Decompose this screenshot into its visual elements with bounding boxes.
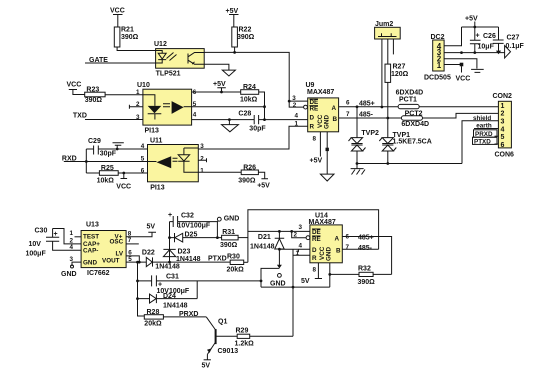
svg-text:390Ω: 390Ω bbox=[237, 34, 255, 41]
svg-text:+5V: +5V bbox=[213, 81, 226, 88]
wire Jum2 to R27 bbox=[387, 39, 389, 64]
net 485+ row A bbox=[339, 100, 499, 108]
svg-text:C26: C26 bbox=[483, 33, 496, 40]
power 5V (U13 V+) bbox=[126, 224, 156, 237]
svg-text:1N4148: 1N4148 bbox=[250, 243, 275, 250]
phototransistor inside U12 bbox=[188, 53, 204, 65]
resistor R21 bbox=[114, 27, 138, 48]
wire GATE to U12 cathode bbox=[85, 62, 156, 64]
op-amp U11 PI13 optocoupler bbox=[141, 138, 205, 192]
svg-text:C32: C32 bbox=[181, 212, 194, 219]
svg-text:3: 3 bbox=[501, 119, 505, 126]
pin Jum2 pin3 stub bbox=[392, 39, 394, 54]
resistor R23 bbox=[85, 87, 105, 105]
capacitor C27 bbox=[493, 27, 525, 53]
svg-text:A: A bbox=[335, 236, 340, 243]
svg-text:1.2kΩ: 1.2kΩ bbox=[235, 340, 255, 347]
net PTXD (CON2 pin6) bbox=[473, 137, 499, 145]
junction TVP2 on 485+ bbox=[356, 105, 359, 108]
wire VOUT bus down left bbox=[138, 262, 145, 316]
svg-text:C9013: C9013 bbox=[218, 348, 239, 355]
svg-text:390Ω: 390Ω bbox=[121, 34, 139, 41]
svg-text:C29: C29 bbox=[88, 138, 101, 145]
svg-text:U13: U13 bbox=[86, 222, 99, 229]
svg-text:RE: RE bbox=[310, 106, 319, 113]
svg-text:R27: R27 bbox=[393, 64, 406, 71]
pin U13 TEST pin1 stub bbox=[70, 230, 82, 237]
net 485+ (U14 A) bbox=[342, 234, 391, 275]
svg-text:C30: C30 bbox=[35, 228, 48, 235]
svg-text:DE: DE bbox=[312, 229, 321, 236]
wire U10 pin5 row bbox=[192, 106, 265, 108]
node TXD bbox=[73, 112, 143, 119]
svg-text:+: + bbox=[54, 231, 58, 238]
svg-text:2: 2 bbox=[501, 111, 505, 118]
capacitor C29 bbox=[86, 138, 147, 158]
svg-text:CON2: CON2 bbox=[493, 93, 513, 100]
svg-text:RE: RE bbox=[312, 236, 321, 243]
svg-text:3: 3 bbox=[200, 143, 204, 150]
wire DC2 pin3 to cap rail bbox=[444, 52, 461, 54]
svg-text:485-: 485- bbox=[359, 112, 374, 119]
svg-text:10μF: 10μF bbox=[478, 44, 495, 51]
svg-text:GND: GND bbox=[83, 260, 97, 267]
pin U14 VCC pin8 to 5V bbox=[301, 263, 322, 285]
svg-text:TVP2: TVP2 bbox=[361, 130, 379, 137]
wire TXD to U10 pin3 bbox=[85, 119, 143, 121]
resistor R27 bbox=[385, 64, 409, 83]
power VCC (below R25) bbox=[116, 172, 131, 191]
pin U13 OSC pin7 stub bbox=[126, 237, 139, 244]
svg-text:GND: GND bbox=[224, 215, 240, 222]
svg-text:20kΩ: 20kΩ bbox=[227, 266, 245, 273]
wire R27 to 485- row bbox=[387, 82, 389, 118]
LED inside U10 bbox=[143, 95, 155, 106]
wire D21 bottom link bbox=[261, 268, 279, 287]
wire U10 pin6 row bbox=[192, 91, 241, 93]
wire DC2 pin4 up to +5V rail bbox=[444, 27, 461, 46]
svg-text:+5V: +5V bbox=[257, 183, 270, 190]
wire R31 node to 485- route bbox=[248, 210, 379, 263]
svg-text:CAP-: CAP- bbox=[83, 247, 98, 254]
svg-text:7: 7 bbox=[346, 244, 350, 251]
net PTXD row / resistor R30 bbox=[170, 253, 248, 273]
svg-text:VCC: VCC bbox=[116, 184, 131, 191]
svg-text:Q1: Q1 bbox=[218, 318, 227, 325]
svg-text:6DXD4D: 6DXD4D bbox=[396, 89, 424, 96]
receiver triangle inside U11 bbox=[157, 156, 172, 168]
power +5V (U10 pin6 pull-up) bbox=[213, 81, 226, 92]
pin U14 RE pin2 with bubble bbox=[292, 231, 310, 239]
pin U9 RE pin2 with bubble bbox=[289, 101, 307, 109]
ground (U11 pin4) bbox=[113, 143, 124, 151]
transistor Q1 C9013 bbox=[206, 317, 238, 360]
svg-text:485-: 485- bbox=[358, 245, 373, 252]
svg-text:D: D bbox=[312, 247, 317, 254]
svg-text:1: 1 bbox=[200, 167, 204, 174]
connector DC2 DCD505 bbox=[424, 34, 451, 82]
svg-text:10V: 10V bbox=[29, 241, 42, 248]
svg-text:C31: C31 bbox=[166, 273, 179, 280]
svg-text:+5V: +5V bbox=[226, 8, 239, 15]
svg-text:5V: 5V bbox=[301, 278, 310, 285]
svg-text:30pF: 30pF bbox=[100, 151, 117, 158]
svg-text:4: 4 bbox=[501, 126, 505, 133]
svg-text:+: + bbox=[168, 212, 172, 219]
svg-text:10kΩ: 10kΩ bbox=[97, 178, 115, 185]
svg-text:PI13: PI13 bbox=[145, 128, 160, 135]
svg-text:R22: R22 bbox=[239, 27, 252, 34]
net shield (CON2 pin3) bbox=[462, 115, 498, 164]
svg-text:U11: U11 bbox=[150, 138, 163, 145]
svg-text:20kΩ: 20kΩ bbox=[144, 320, 162, 327]
svg-text:5: 5 bbox=[501, 134, 505, 141]
svg-text:CON6: CON6 bbox=[495, 152, 515, 159]
svg-text:4: 4 bbox=[299, 243, 303, 250]
svg-text:390Ω: 390Ω bbox=[85, 97, 103, 104]
node off-page arrow bbox=[505, 46, 511, 58]
svg-text:10kΩ: 10kΩ bbox=[240, 97, 258, 104]
diode D21 1N4148 bbox=[250, 230, 284, 268]
wire U10 pin4 row / C28 left bbox=[192, 119, 255, 121]
resistor R25 bbox=[86, 165, 147, 185]
wire DI/RO net vertical bbox=[292, 249, 294, 336]
svg-text:6DXD4D: 6DXD4D bbox=[401, 121, 429, 128]
fuse PCT2 bbox=[401, 111, 429, 129]
op-amp U13 ICL7662 bbox=[81, 222, 126, 277]
resistor R22 bbox=[232, 27, 255, 48]
fuse PCT1 bbox=[396, 89, 424, 109]
svg-text:6: 6 bbox=[346, 234, 350, 241]
power +5V (top right) bbox=[465, 16, 478, 28]
svg-text:B: B bbox=[336, 248, 341, 255]
svg-text:+: + bbox=[476, 33, 480, 40]
svg-text:485+: 485+ bbox=[358, 234, 374, 241]
svg-text:4: 4 bbox=[193, 112, 197, 119]
node GND port (D21) bbox=[270, 274, 286, 288]
wire DC2 pin2 to ground bbox=[444, 59, 477, 69]
pin U13 VOUT pin5 bbox=[126, 256, 146, 264]
power +5V (below R26) bbox=[257, 172, 270, 189]
svg-text:390Ω: 390Ω bbox=[220, 242, 238, 249]
pin U10 pin2 stub bbox=[129, 105, 143, 109]
power 5V (Q1 emitter) bbox=[202, 360, 211, 369]
op-amp U12 TLP521 optocoupler bbox=[154, 41, 204, 78]
svg-text:1.5KE7.5CA: 1.5KE7.5CA bbox=[393, 139, 432, 146]
power +5V (above R22) bbox=[226, 8, 239, 27]
svg-text:120Ω: 120Ω bbox=[391, 71, 409, 78]
svg-text:1: 1 bbox=[501, 103, 505, 110]
svg-text:PTXD: PTXD bbox=[474, 138, 491, 145]
resistor R26 bbox=[198, 164, 258, 184]
wire R21 to U12 anode bbox=[117, 47, 156, 51]
svg-text:6: 6 bbox=[346, 100, 350, 107]
svg-text:OSC: OSC bbox=[110, 238, 124, 245]
wire Jum2 pin1 to 485+ row bbox=[381, 39, 383, 107]
pin U9 R pin1 to U11 pin3 bbox=[198, 120, 307, 149]
svg-text:R24: R24 bbox=[243, 84, 256, 91]
svg-text:A: A bbox=[332, 105, 337, 112]
svg-text:R: R bbox=[312, 255, 317, 262]
net earth (CON2 pin4) bbox=[474, 122, 498, 129]
svg-text:5V: 5V bbox=[147, 224, 156, 231]
resistor R31 bbox=[220, 229, 248, 249]
connector CON2 bbox=[493, 93, 515, 159]
wire node X vertical bbox=[169, 222, 171, 263]
SECTION-BOTTOM bbox=[26, 210, 392, 369]
op-amp U10 PI13 optocoupler bbox=[136, 82, 197, 135]
LED inside U12 bbox=[156, 51, 163, 54]
svg-text:MAX487: MAX487 bbox=[307, 89, 334, 96]
svg-text:R23: R23 bbox=[86, 87, 99, 94]
svg-text:1: 1 bbox=[437, 61, 442, 70]
svg-text:R32: R32 bbox=[358, 265, 371, 272]
pin U14 DE pin3 bbox=[290, 224, 302, 233]
wire RXD branch vertical bbox=[85, 149, 87, 173]
wire R23 to U10 pin1 bbox=[105, 94, 143, 96]
resistor R24 bbox=[240, 84, 259, 104]
svg-text:D: D bbox=[310, 115, 315, 122]
svg-text:7: 7 bbox=[128, 237, 132, 244]
svg-text:R25: R25 bbox=[101, 165, 114, 172]
svg-text:PRXD: PRXD bbox=[179, 311, 198, 318]
diode D22 1N4148 bbox=[142, 250, 180, 271]
svg-text:TXD: TXD bbox=[73, 112, 87, 119]
svg-text:GND: GND bbox=[326, 247, 333, 261]
svg-text:8: 8 bbox=[313, 136, 317, 143]
svg-text:6: 6 bbox=[501, 142, 505, 149]
wire R22 to collector row and down to U9 DE bbox=[204, 47, 289, 101]
power VCC (top left) bbox=[110, 8, 125, 28]
wire C28 to U9 pin4 bbox=[259, 119, 308, 121]
svg-text:D22: D22 bbox=[142, 250, 155, 257]
svg-text:U12: U12 bbox=[154, 41, 167, 48]
node GND port (C32) bbox=[216, 215, 239, 239]
pin U9 GND pin5 to ground bbox=[320, 132, 334, 181]
svg-text:R21: R21 bbox=[121, 27, 134, 34]
wire pin4 row to D21 bbox=[279, 249, 310, 252]
svg-text:1: 1 bbox=[70, 230, 74, 237]
SECTION-TOP bbox=[85, 8, 525, 120]
capacitor C26 bbox=[470, 27, 496, 53]
op-amp U14 MAX487 bbox=[309, 212, 343, 262]
svg-text:4: 4 bbox=[295, 112, 299, 119]
svg-text:2: 2 bbox=[200, 155, 204, 162]
svg-text:U10: U10 bbox=[137, 82, 150, 89]
ground (U10 pin4) bbox=[228, 120, 230, 125]
transient suppressor TVP2 bbox=[349, 107, 380, 164]
svg-text:390Ω: 390Ω bbox=[238, 178, 256, 185]
svg-text:7: 7 bbox=[346, 111, 350, 118]
capacitor C28 bbox=[238, 110, 266, 132]
svg-text:5: 5 bbox=[141, 155, 145, 162]
svg-text:6: 6 bbox=[141, 167, 145, 174]
svg-text:0.1μF: 0.1μF bbox=[506, 43, 525, 50]
resistor R28 bbox=[144, 309, 206, 328]
svg-text:U9: U9 bbox=[306, 82, 315, 89]
svg-text:390Ω: 390Ω bbox=[358, 279, 376, 286]
capacitor C30 bbox=[26, 228, 82, 258]
svg-text:R26: R26 bbox=[243, 164, 256, 171]
svg-text:2: 2 bbox=[293, 102, 297, 109]
wire earth bus bbox=[357, 163, 462, 165]
svg-text:8: 8 bbox=[313, 267, 317, 274]
pin U14 GND pin5 bbox=[329, 263, 331, 287]
svg-text:4: 4 bbox=[141, 143, 145, 150]
capacitor C31 bbox=[136, 273, 262, 295]
svg-text:3: 3 bbox=[299, 224, 303, 231]
wire DE row U14 bbox=[248, 230, 310, 232]
svg-text:GND: GND bbox=[324, 115, 331, 129]
svg-text:R29: R29 bbox=[236, 328, 249, 335]
svg-text:GND: GND bbox=[270, 280, 286, 287]
svg-text:VOUT: VOUT bbox=[102, 257, 120, 264]
svg-text:5V: 5V bbox=[202, 363, 211, 369]
net PRXD (CON2 pin5) bbox=[474, 130, 499, 138]
svg-text:IC7662: IC7662 bbox=[87, 270, 110, 277]
net 485- (U14 B) bbox=[342, 244, 378, 252]
resistor R32 bbox=[330, 265, 392, 286]
svg-text:485+: 485+ bbox=[359, 100, 375, 107]
pin U9 VCC pin8 to +5V bbox=[310, 132, 323, 165]
svg-text:R28: R28 bbox=[147, 309, 160, 316]
svg-text:VCC: VCC bbox=[110, 8, 125, 15]
svg-text:3: 3 bbox=[136, 114, 140, 121]
svg-text:+5V: +5V bbox=[310, 157, 323, 164]
svg-text:VCC: VCC bbox=[456, 76, 471, 83]
svg-text:+5V: +5V bbox=[465, 16, 478, 23]
svg-text:PCT1: PCT1 bbox=[399, 96, 417, 103]
svg-text:TLP521: TLP521 bbox=[156, 71, 181, 78]
svg-text:PTXD: PTXD bbox=[208, 256, 227, 263]
SECTION-MID bbox=[62, 81, 514, 192]
node RXD bbox=[62, 156, 148, 163]
pin U11 pin2 stub bbox=[198, 158, 206, 162]
svg-text:TEST: TEST bbox=[83, 234, 99, 241]
diode D25 1N4148 bbox=[170, 231, 222, 242]
LED inside U11 bbox=[148, 148, 199, 172]
diode D24 1N4148 bbox=[136, 281, 197, 309]
pin U13 GND pin3 bbox=[61, 256, 81, 278]
svg-text:C27: C27 bbox=[507, 35, 520, 42]
wire cap rail bbox=[462, 52, 505, 54]
ground (earth slashes) bbox=[351, 164, 365, 175]
wire U12 emitter to ground bbox=[204, 64, 229, 70]
wire bus row 287 bbox=[261, 286, 330, 288]
wire DC2 pin1 to VCC bbox=[444, 63, 470, 83]
svg-text:GND: GND bbox=[61, 271, 77, 278]
wire C30 top to CAP+ bbox=[53, 229, 82, 244]
svg-text:D23: D23 bbox=[178, 249, 191, 256]
pin U9 DE pin3 bbox=[288, 95, 308, 103]
junction R22/collector bbox=[233, 51, 236, 54]
wire +5V rail bbox=[462, 26, 499, 28]
svg-text:30pF: 30pF bbox=[249, 126, 266, 133]
pin U14 R pin1 bbox=[293, 250, 310, 257]
svg-text:D21: D21 bbox=[258, 234, 271, 241]
svg-text:1: 1 bbox=[136, 89, 140, 96]
ground (DC2 pin2) bbox=[471, 69, 484, 72]
svg-text:VCC: VCC bbox=[67, 82, 82, 89]
power VCC (left of R23) bbox=[67, 82, 85, 95]
svg-text:DCD505: DCD505 bbox=[424, 75, 451, 82]
output buffer inside U10 bbox=[172, 101, 184, 114]
svg-text:PI13: PI13 bbox=[150, 185, 165, 192]
svg-text:R31: R31 bbox=[222, 229, 235, 236]
resistor R29 bbox=[235, 328, 294, 348]
svg-text:2: 2 bbox=[136, 101, 140, 108]
svg-text:R: R bbox=[310, 124, 315, 131]
transient suppressor TVP1 bbox=[379, 118, 431, 164]
svg-text:1N4148: 1N4148 bbox=[163, 302, 188, 309]
pin U13 LV pin6 to VOUT bbox=[126, 249, 139, 262]
svg-text:R30: R30 bbox=[227, 253, 240, 260]
svg-text:B: B bbox=[333, 116, 338, 123]
connector Jum2 bbox=[375, 21, 401, 39]
diode D23 1N4148 bbox=[163, 249, 200, 263]
op-amp U9 MAX487 bbox=[306, 82, 339, 132]
net 485- row B bbox=[339, 111, 499, 119]
svg-text:C28: C28 bbox=[238, 110, 251, 117]
svg-text:1N4148: 1N4148 bbox=[155, 264, 180, 271]
ground (U12 emitter) bbox=[222, 70, 235, 76]
svg-text:100μF: 100μF bbox=[26, 251, 47, 258]
svg-text:10V100μF: 10V100μF bbox=[178, 223, 211, 230]
svg-text:1: 1 bbox=[296, 250, 300, 257]
node GATE bbox=[85, 57, 156, 64]
capacitor C32 bbox=[168, 212, 217, 230]
wire RXD to U11 pin5 bbox=[64, 161, 148, 163]
wire R24 to DI node bbox=[259, 92, 265, 120]
